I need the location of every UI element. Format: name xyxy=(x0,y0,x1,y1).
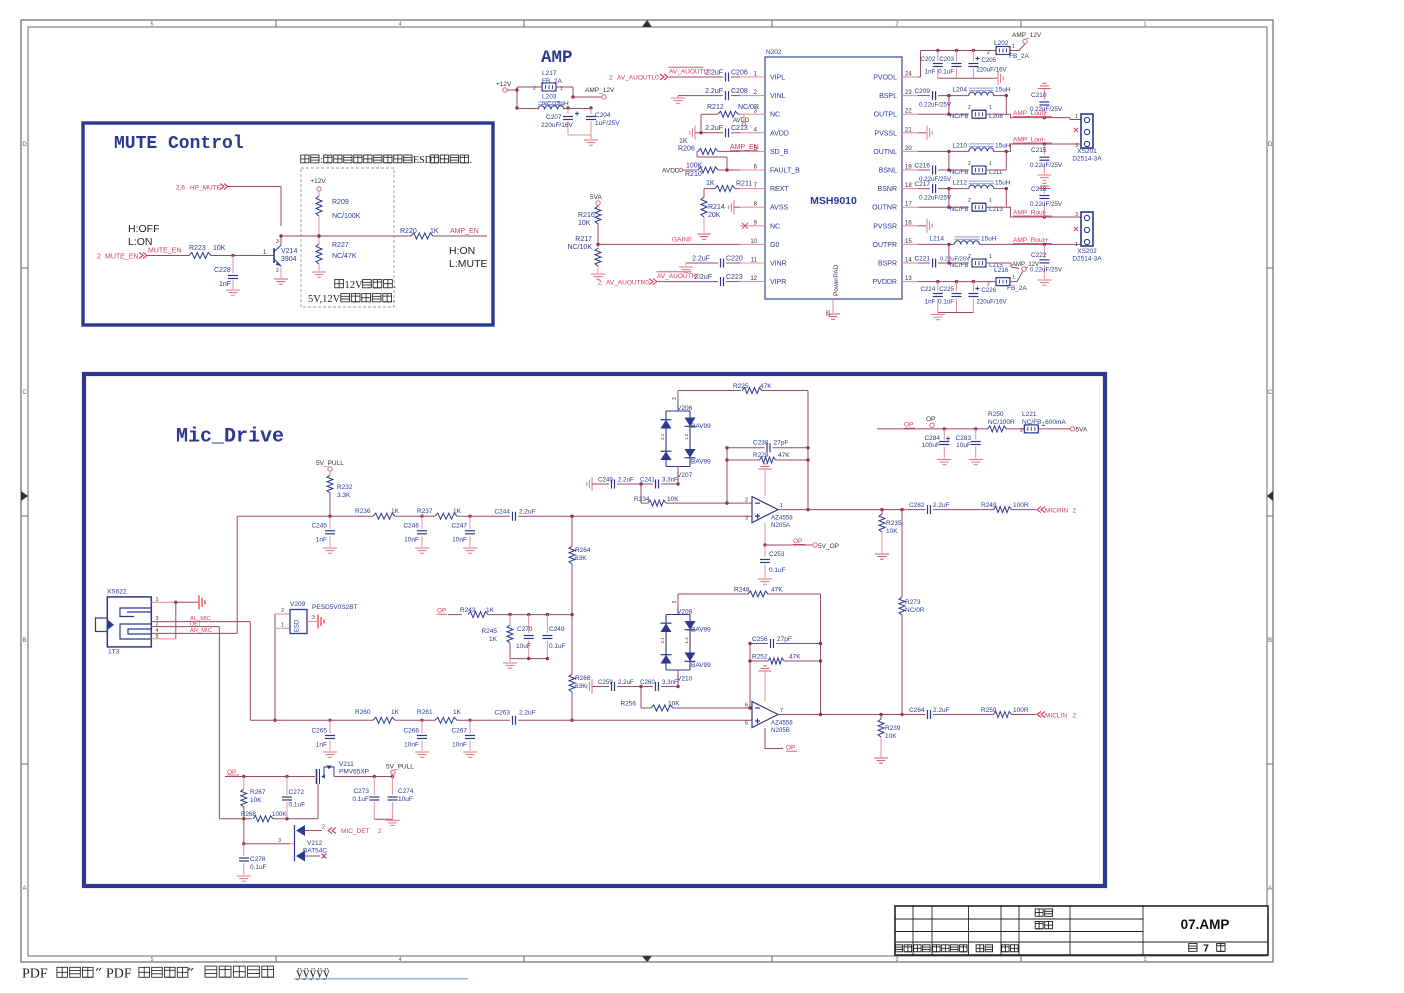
svg-text:R250: R250 xyxy=(988,411,1004,418)
svg-text:AV_AUOUTR0: AV_AUOUTR0 xyxy=(606,280,649,287)
svg-text:C215: C215 xyxy=(1031,147,1047,154)
svg-text:5V_PULL: 5V_PULL xyxy=(316,460,344,467)
svg-text:N205A: N205A xyxy=(771,522,791,529)
svg-text:R239: R239 xyxy=(885,725,901,732)
svg-text:+12V: +12V xyxy=(310,178,326,185)
svg-text:2: 2 xyxy=(895,957,898,963)
svg-text:BAV99: BAV99 xyxy=(691,662,711,669)
svg-text:2,1: 2,1 xyxy=(660,433,665,440)
svg-text:2.2uF: 2.2uF xyxy=(519,709,536,716)
svg-text:OUTPR: OUTPR xyxy=(873,242,898,249)
svg-text:G0: G0 xyxy=(770,242,779,249)
svg-text:C246: C246 xyxy=(403,523,419,530)
svg-text:V207: V207 xyxy=(677,472,693,479)
svg-text:10nF: 10nF xyxy=(404,742,419,749)
svg-text:10uF: 10uF xyxy=(398,796,413,803)
svg-text:D2514-3A: D2514-3A xyxy=(1072,156,1102,163)
svg-text:C222: C222 xyxy=(1031,252,1047,259)
svg-text:NC/10K: NC/10K xyxy=(567,244,592,251)
svg-text:C224: C224 xyxy=(921,286,936,293)
svg-text:.: . xyxy=(470,155,473,166)
svg-text:47K: 47K xyxy=(778,452,790,459)
svg-text:VINL: VINL xyxy=(770,93,786,100)
svg-text:1: 1 xyxy=(989,198,992,204)
svg-text:15uH: 15uH xyxy=(981,235,997,242)
svg-text:1: 1 xyxy=(989,161,992,167)
svg-text:2: 2 xyxy=(378,828,382,835)
svg-text:2,1: 2,1 xyxy=(660,637,665,644)
svg-text:AMP: AMP xyxy=(541,48,573,68)
svg-text:C245: C245 xyxy=(311,523,327,530)
svg-text:0.1uF: 0.1uF xyxy=(250,864,267,871)
svg-text:1: 1 xyxy=(989,105,992,111)
svg-text:15uH: 15uH xyxy=(995,142,1011,149)
svg-text:R260: R260 xyxy=(355,709,371,716)
svg-text:10uF: 10uF xyxy=(956,442,971,449)
svg-text:17: 17 xyxy=(905,202,912,208)
svg-text:R245: R245 xyxy=(481,628,497,635)
svg-text:2.2uF: 2.2uF xyxy=(519,509,536,516)
svg-text:C272: C272 xyxy=(289,789,305,796)
svg-text:10nF: 10nF xyxy=(404,537,419,544)
svg-text:SD_B: SD_B xyxy=(770,149,789,156)
svg-text:1nF: 1nF xyxy=(925,299,936,306)
svg-text:10: 10 xyxy=(750,239,757,245)
svg-text:2,6: 2,6 xyxy=(176,185,185,192)
svg-text:100R: 100R xyxy=(1013,502,1029,509)
svg-text:R248: R248 xyxy=(734,587,750,594)
svg-text:2: 2 xyxy=(1073,713,1077,720)
svg-text:C270: C270 xyxy=(517,626,533,633)
svg-text:C256: C256 xyxy=(752,636,768,643)
svg-text:5: 5 xyxy=(150,22,153,28)
svg-text:C228: C228 xyxy=(214,267,231,274)
svg-text:1: 1 xyxy=(989,254,992,260)
svg-text:1K: 1K xyxy=(679,138,688,145)
svg-text:NC: NC xyxy=(770,112,780,119)
svg-text:220uF/16V: 220uF/16V xyxy=(976,67,1007,74)
svg-text:N205B: N205B xyxy=(771,727,790,734)
svg-text:5V_PULL: 5V_PULL xyxy=(386,764,414,771)
svg-text:47K: 47K xyxy=(789,654,801,661)
svg-text:H:OFF: H:OFF xyxy=(128,223,160,235)
svg-text:BAV99: BAV99 xyxy=(691,423,711,430)
svg-text:4: 4 xyxy=(398,22,401,28)
svg-text:C253: C253 xyxy=(769,551,785,558)
svg-text:OP: OP xyxy=(904,422,913,429)
svg-text:PVODL: PVODL xyxy=(873,75,897,82)
svg-text:L216: L216 xyxy=(994,267,1009,274)
svg-text:OP: OP xyxy=(437,608,446,615)
svg-text:1K: 1K xyxy=(706,180,715,187)
svg-text:1nF: 1nF xyxy=(219,281,231,288)
svg-text:1K: 1K xyxy=(453,709,462,716)
svg-text:10uF: 10uF xyxy=(516,643,531,650)
svg-text:5V,12V: 5V,12V xyxy=(308,294,341,305)
svg-text:1K: 1K xyxy=(391,508,400,515)
svg-text:DET: DET xyxy=(190,621,202,627)
svg-text:1: 1 xyxy=(281,623,284,629)
svg-text:V211: V211 xyxy=(339,761,354,768)
svg-text:2.2uF: 2.2uF xyxy=(618,679,634,686)
svg-text:10K: 10K xyxy=(885,733,897,740)
svg-text:OP: OP xyxy=(926,416,935,423)
svg-text:10K: 10K xyxy=(213,245,226,252)
svg-text:25: 25 xyxy=(826,310,832,316)
svg-text:NC/100R: NC/100R xyxy=(988,419,1015,426)
svg-text:AMP_EN: AMP_EN xyxy=(730,144,759,151)
svg-text:47K: 47K xyxy=(771,587,783,594)
svg-text:2: 2 xyxy=(1020,428,1023,434)
svg-text:NC/0R: NC/0R xyxy=(738,104,759,111)
svg-text:10K: 10K xyxy=(250,797,262,804)
svg-text:C218: C218 xyxy=(1031,186,1047,193)
svg-text:63K: 63K xyxy=(575,555,587,562)
svg-text:100K: 100K xyxy=(686,163,703,170)
svg-text:L212: L212 xyxy=(953,180,968,187)
svg-text:ÿÿÿÿÿ: ÿÿÿÿÿ xyxy=(296,965,330,980)
svg-text:6: 6 xyxy=(745,703,748,709)
svg-text:100uF: 100uF xyxy=(922,442,940,449)
svg-text:D: D xyxy=(1268,142,1273,148)
svg-text:V212: V212 xyxy=(307,840,323,847)
svg-text:GAIN0: GAIN0 xyxy=(672,237,692,244)
svg-text:N202: N202 xyxy=(766,49,782,56)
svg-text:Mic_Drive: Mic_Drive xyxy=(176,426,284,449)
svg-text:C278: C278 xyxy=(250,856,266,863)
svg-text:0.1uF: 0.1uF xyxy=(938,69,954,76)
svg-text:AMP_EN: AMP_EN xyxy=(450,228,479,235)
svg-text:XS202: XS202 xyxy=(1077,248,1097,255)
svg-text:C260: C260 xyxy=(640,679,655,686)
svg-text:22: 22 xyxy=(905,109,912,115)
svg-text:L210: L210 xyxy=(953,142,968,149)
svg-text:C266: C266 xyxy=(403,728,419,735)
svg-text:1uF/25V: 1uF/25V xyxy=(595,120,620,127)
svg-text:7: 7 xyxy=(1203,943,1209,955)
svg-text:C263: C263 xyxy=(494,709,510,716)
svg-text:1nF: 1nF xyxy=(925,69,936,76)
svg-text:MICRIN: MICRIN xyxy=(1045,508,1068,515)
svg-text:5: 5 xyxy=(150,957,153,963)
svg-text:FB_2A: FB_2A xyxy=(1007,285,1028,292)
svg-text:R229: R229 xyxy=(753,452,769,459)
svg-text:R234: R234 xyxy=(634,496,650,503)
svg-text:C221: C221 xyxy=(914,256,930,263)
svg-text:16: 16 xyxy=(905,220,912,226)
svg-text:L203: L203 xyxy=(542,94,557,101)
svg-text:220uF/16V: 220uF/16V xyxy=(541,122,573,129)
svg-text:2: 2 xyxy=(1073,508,1077,515)
svg-text:2: 2 xyxy=(276,268,279,274)
svg-text:MICLIN: MICLIN xyxy=(1045,713,1067,720)
svg-text:R237: R237 xyxy=(417,508,433,515)
svg-text:1K: 1K xyxy=(391,709,400,716)
svg-text:L221: L221 xyxy=(1022,411,1037,418)
svg-text:1: 1 xyxy=(1075,242,1078,248)
svg-text:C204: C204 xyxy=(595,112,611,119)
svg-text:REXT: REXT xyxy=(770,186,789,193)
svg-text:C216: C216 xyxy=(914,163,930,170)
svg-text:L:MUTE: L:MUTE xyxy=(449,258,488,270)
svg-text:5VA: 5VA xyxy=(1076,427,1088,434)
svg-text:C205: C205 xyxy=(981,57,996,64)
svg-text:5VA: 5VA xyxy=(590,194,602,201)
svg-text:2: 2 xyxy=(968,105,971,111)
svg-text:L217: L217 xyxy=(542,70,557,77)
svg-text:B: B xyxy=(22,638,26,644)
svg-text:1K: 1K xyxy=(489,636,498,643)
svg-text:AZ4558: AZ4558 xyxy=(771,515,793,522)
svg-text:NC/0R: NC/0R xyxy=(905,607,925,614)
svg-text:R216: R216 xyxy=(578,212,595,219)
svg-text:27pF: 27pF xyxy=(774,440,789,447)
svg-text:AMP_12V: AMP_12V xyxy=(1012,32,1042,39)
svg-text:1T3: 1T3 xyxy=(108,649,120,656)
svg-text:2.2uF: 2.2uF xyxy=(705,88,723,95)
svg-text:3904: 3904 xyxy=(281,256,297,263)
svg-text:3: 3 xyxy=(672,601,678,604)
svg-text:C209: C209 xyxy=(914,88,930,95)
svg-text:1,2: 1,2 xyxy=(684,637,689,644)
svg-text:3.3nF: 3.3nF xyxy=(662,477,678,484)
svg-text:+12V: +12V xyxy=(496,81,512,88)
svg-text:C202: C202 xyxy=(921,56,936,63)
svg-text:PMV65XP: PMV65XP xyxy=(339,769,369,776)
svg-text:AR_MIC: AR_MIC xyxy=(190,628,212,634)
svg-text:C220: C220 xyxy=(726,256,743,263)
svg-text:VIPL: VIPL xyxy=(770,75,785,82)
svg-text:13: 13 xyxy=(905,276,912,282)
svg-text:19: 19 xyxy=(905,165,912,171)
svg-text:3: 3 xyxy=(745,516,748,522)
svg-text:C203: C203 xyxy=(939,56,954,63)
svg-text:NC/FB: NC/FB xyxy=(950,113,969,120)
svg-text:2: 2 xyxy=(895,22,898,28)
svg-text:3: 3 xyxy=(276,239,279,245)
svg-text:1K: 1K xyxy=(430,228,439,235)
svg-text:AZ4558: AZ4558 xyxy=(771,720,793,727)
svg-text:24: 24 xyxy=(905,72,912,78)
svg-text:3: 3 xyxy=(278,838,281,844)
svg-text:B: B xyxy=(1268,638,1272,644)
svg-text:AMP_Rout+: AMP_Rout+ xyxy=(1013,237,1048,244)
svg-text:PVSSL: PVSSL xyxy=(874,130,897,137)
svg-text:1,2: 1,2 xyxy=(684,433,689,440)
svg-text:2: 2 xyxy=(598,280,602,287)
svg-text:20: 20 xyxy=(905,146,912,152)
svg-text:2.2uF: 2.2uF xyxy=(933,502,950,509)
svg-text:R211: R211 xyxy=(736,181,752,188)
svg-text:HP_MUTE: HP_MUTE xyxy=(190,185,222,192)
svg-text:.: . xyxy=(393,280,396,291)
svg-text:VIPR: VIPR xyxy=(770,279,786,286)
svg-text:0.1uF: 0.1uF xyxy=(549,643,566,650)
svg-text:AMP_Lout-: AMP_Lout- xyxy=(1013,137,1046,144)
svg-text:MIC_DET: MIC_DET xyxy=(341,828,370,835)
svg-text:OUTNR: OUTNR xyxy=(872,205,897,212)
svg-text:PDF: PDF xyxy=(106,967,132,982)
svg-text:1nF: 1nF xyxy=(316,742,327,749)
svg-text:V208: V208 xyxy=(677,609,693,616)
svg-text:C226: C226 xyxy=(981,287,996,294)
svg-text:2: 2 xyxy=(987,50,990,56)
svg-text:C217: C217 xyxy=(914,181,930,188)
svg-text:1: 1 xyxy=(780,503,783,509)
svg-text:3.3K: 3.3K xyxy=(337,492,351,499)
svg-text:C283: C283 xyxy=(955,435,971,442)
svg-text:0.22uF/25V: 0.22uF/25V xyxy=(919,102,952,109)
svg-text:3.3nF: 3.3nF xyxy=(662,679,678,686)
svg-text:R206: R206 xyxy=(678,146,695,153)
svg-text:4: 4 xyxy=(398,957,401,963)
svg-text:C282: C282 xyxy=(909,502,925,509)
svg-text:OUTPL: OUTPL xyxy=(874,112,897,119)
svg-text:PVDDR: PVDDR xyxy=(872,279,897,286)
svg-text:.: . xyxy=(393,294,396,305)
svg-text:1K: 1K xyxy=(486,607,495,614)
svg-text:R232: R232 xyxy=(337,484,353,491)
svg-text:NC: NC xyxy=(770,223,780,230)
svg-text:D: D xyxy=(22,142,27,148)
svg-text:BSPR: BSPR xyxy=(878,261,897,268)
svg-text:2: 2 xyxy=(281,608,284,614)
svg-text:PVSSR: PVSSR xyxy=(873,223,897,230)
svg-text:C206: C206 xyxy=(731,70,748,77)
svg-text:NC/100K: NC/100K xyxy=(332,213,361,220)
svg-text:V206: V206 xyxy=(677,405,693,412)
svg-text:R210: R210 xyxy=(685,171,702,178)
svg-text:AV_AUOUTL0: AV_AUOUTL0 xyxy=(617,75,659,82)
svg-text:C264: C264 xyxy=(909,707,925,714)
svg-text:C: C xyxy=(1268,390,1273,396)
svg-text:L204: L204 xyxy=(953,87,968,94)
svg-text:2.2uF: 2.2uF xyxy=(692,256,710,263)
svg-text:C213: C213 xyxy=(731,125,748,132)
svg-text:2: 2 xyxy=(968,198,971,204)
svg-text::: : xyxy=(320,155,323,166)
svg-text:C210: C210 xyxy=(1031,92,1047,99)
svg-text:PDF: PDF xyxy=(22,967,48,982)
svg-text:R261: R261 xyxy=(417,709,433,716)
svg-text:OP: OP xyxy=(786,745,795,752)
svg-text:2: 2 xyxy=(745,498,748,504)
svg-text:63K: 63K xyxy=(575,683,587,690)
svg-text:AVDD: AVDD xyxy=(770,130,789,137)
svg-text:MUTE Control: MUTE Control xyxy=(114,134,244,154)
svg-text:C223: C223 xyxy=(726,274,743,281)
svg-text:R227: R227 xyxy=(332,242,349,249)
svg-text:R273: R273 xyxy=(905,599,921,606)
svg-text:2.2uF: 2.2uF xyxy=(933,707,950,714)
svg-text:15uH: 15uH xyxy=(995,180,1011,187)
svg-text:C249: C249 xyxy=(549,626,565,633)
svg-text:R209: R209 xyxy=(332,199,349,206)
svg-text:0.1uF: 0.1uF xyxy=(289,802,306,809)
svg-text:FB_2A: FB_2A xyxy=(1009,53,1030,60)
svg-text:OUTNL: OUTNL xyxy=(873,149,897,156)
svg-text:7: 7 xyxy=(780,708,783,714)
svg-text:R252: R252 xyxy=(752,654,768,661)
svg-text:10K: 10K xyxy=(578,220,591,227)
svg-text:10K: 10K xyxy=(668,701,680,708)
svg-text:AVSS: AVSS xyxy=(770,205,788,212)
svg-text:R264: R264 xyxy=(575,547,591,554)
svg-text:R217: R217 xyxy=(575,236,592,243)
svg-text:C267: C267 xyxy=(451,728,467,735)
svg-text:1: 1 xyxy=(1075,114,1078,120)
svg-text:0.1uF: 0.1uF xyxy=(938,299,954,306)
svg-text:3: 3 xyxy=(1075,212,1078,218)
svg-text:R225: R225 xyxy=(733,383,749,390)
svg-text:100R: 100R xyxy=(1013,707,1029,714)
svg-text:10nF: 10nF xyxy=(452,742,467,749)
svg-text:NC/FB: NC/FB xyxy=(950,262,969,269)
svg-text:1nF: 1nF xyxy=(316,537,327,544)
svg-text:1: 1 xyxy=(1042,422,1045,428)
svg-text:XS201: XS201 xyxy=(1077,148,1097,155)
svg-text:FAULT_B: FAULT_B xyxy=(770,168,800,175)
svg-text:C273: C273 xyxy=(353,788,369,795)
svg-text:BAV99: BAV99 xyxy=(691,459,711,466)
svg-text:21: 21 xyxy=(905,127,912,133)
svg-text:R243: R243 xyxy=(460,607,476,614)
svg-text:MSH9010: MSH9010 xyxy=(810,195,857,207)
svg-text:VINR: VINR xyxy=(770,261,787,268)
svg-text:R223: R223 xyxy=(189,245,206,252)
svg-text:H:ON: H:ON xyxy=(449,245,475,257)
svg-text:NC/47K: NC/47K xyxy=(332,253,357,260)
svg-text:R256: R256 xyxy=(620,701,636,708)
svg-text:C265: C265 xyxy=(311,728,327,735)
svg-text:C244: C244 xyxy=(494,509,510,516)
svg-text:AMP_12V: AMP_12V xyxy=(1012,262,1039,268)
svg-text:220uF/16V: 220uF/16V xyxy=(976,299,1007,306)
svg-text:A: A xyxy=(22,886,26,892)
svg-text:0.1uF: 0.1uF xyxy=(769,567,786,574)
svg-text:2: 2 xyxy=(968,161,971,167)
svg-text:R212: R212 xyxy=(707,104,724,111)
svg-text:C225: C225 xyxy=(939,286,954,293)
svg-text:3: 3 xyxy=(312,615,315,621)
svg-text:11: 11 xyxy=(751,258,758,264)
svg-text:R235: R235 xyxy=(886,520,902,527)
svg-text:R266: R266 xyxy=(575,675,591,682)
svg-text:1: 1 xyxy=(1012,275,1015,281)
svg-text:20K: 20K xyxy=(708,212,721,219)
svg-text:BSPL: BSPL xyxy=(879,93,897,100)
svg-text:5: 5 xyxy=(745,721,748,727)
svg-text:D2514-3A: D2514-3A xyxy=(1072,256,1102,263)
svg-text:10K: 10K xyxy=(886,528,898,535)
svg-text:NC/FB: NC/FB xyxy=(950,206,969,213)
svg-text:BSNR: BSNR xyxy=(878,186,897,193)
svg-text:1: 1 xyxy=(1143,22,1146,28)
svg-text:15: 15 xyxy=(905,239,912,245)
svg-text:V214: V214 xyxy=(281,248,297,255)
svg-text:10nF: 10nF xyxy=(452,537,467,544)
svg-text:C238: C238 xyxy=(753,440,769,447)
svg-text:BSNL: BSNL xyxy=(879,168,897,175)
svg-text:12V: 12V xyxy=(345,280,364,291)
svg-text:PowerPAD: PowerPAD xyxy=(833,264,840,296)
svg-text:R236: R236 xyxy=(355,508,371,515)
svg-text:C241: C241 xyxy=(640,477,655,484)
svg-text:ESD: ESD xyxy=(413,155,432,166)
svg-text:2.2uF: 2.2uF xyxy=(694,274,712,281)
svg-text:C274: C274 xyxy=(398,788,414,795)
svg-text:0.1uF: 0.1uF xyxy=(352,796,369,803)
